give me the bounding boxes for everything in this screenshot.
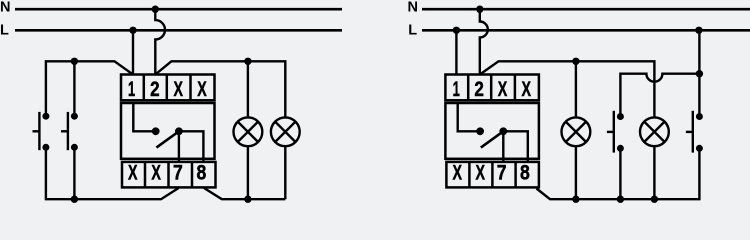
wire N bus (circuit 2) bbox=[422, 8, 750, 11]
relay K1 terminal labels X X 7 8 bbox=[128, 162, 206, 185]
junction on L bus circuit 2 left bbox=[453, 27, 460, 34]
internal wire terminal 1 to contact bbox=[458, 103, 480, 131]
contact fixed point K2 bbox=[476, 127, 484, 135]
contact blade K2 bbox=[481, 131, 504, 147]
junction S2 on bottom bus bbox=[71, 196, 78, 203]
junction pushbutton S2 tap bbox=[71, 58, 78, 65]
wire terminal 8 to bottom bus and pushbutton S4 bbox=[537, 148, 700, 199]
junction on N bus bbox=[152, 6, 159, 13]
wire terminal 8 to bottom bus bbox=[204, 188, 285, 199]
junction lamp E1 tap bbox=[244, 58, 251, 65]
wire L to relay K1 terminal 1 bbox=[132, 30, 134, 74]
wire lamp E4 bottom bbox=[653, 146, 655, 199]
relay K2 terminal labels 1 2 X X bbox=[453, 78, 532, 101]
junction on L bus circuit 2 right bbox=[695, 27, 702, 34]
relay K1 terminal labels 1 2 X X bbox=[128, 78, 207, 101]
wire pushbutton branch to terminal 1 bbox=[46, 61, 133, 116]
svg-text:X: X bbox=[173, 78, 183, 101]
wire S1 bottom and bus to relay K1 terminal 7 bbox=[46, 147, 179, 199]
wire lamp E1 top bbox=[247, 61, 249, 117]
junction lamp E3 on bottom bus bbox=[572, 196, 579, 203]
svg-text:X: X bbox=[522, 78, 532, 101]
lamp E4 bbox=[640, 117, 669, 146]
wire L bus (circuit 1) bbox=[15, 29, 342, 32]
pushbutton S2 bbox=[61, 112, 78, 151]
svg-text:2: 2 bbox=[150, 78, 160, 101]
lamp E2 bbox=[271, 117, 300, 146]
wire terminal 2 to lamps E3 E4 bbox=[480, 61, 655, 117]
svg-text:2: 2 bbox=[474, 78, 484, 101]
relay K1 body bbox=[121, 103, 215, 159]
wire terminal 2 to lamps E1 E2 bbox=[155, 61, 285, 117]
relay K2 bottom terminal row bbox=[446, 162, 539, 188]
wire N bus (circuit 1) bbox=[15, 8, 342, 11]
svg-text:7: 7 bbox=[173, 162, 183, 185]
internal wire contact to terminal 7 K2 bbox=[502, 131, 504, 162]
junction lamp E1 on bottom bus bbox=[244, 196, 251, 203]
contact fixed point bbox=[152, 127, 160, 135]
wire L down to pushbutton node bbox=[698, 30, 700, 73]
pushbutton S3 bbox=[607, 111, 624, 153]
svg-text:L: L bbox=[0, 22, 9, 38]
internal wire terminal 1 to contact bbox=[133, 103, 155, 131]
svg-text:X: X bbox=[197, 78, 207, 101]
svg-text:1: 1 bbox=[453, 78, 460, 101]
svg-text:8: 8 bbox=[197, 162, 207, 185]
wire lamp E3 top bbox=[575, 61, 577, 117]
lamp E1 bbox=[234, 117, 263, 146]
relay K1 top terminal row bbox=[121, 75, 215, 101]
wire lamp E1 bottom bbox=[247, 146, 249, 199]
wire lamp E2 bottom bbox=[284, 146, 286, 199]
wire N to relay K2 terminal 2 with hop over L bbox=[480, 9, 488, 74]
svg-text:N: N bbox=[408, 0, 418, 16]
svg-text:X: X bbox=[498, 78, 508, 101]
internal wire contact to terminal 8 K2 bbox=[503, 131, 528, 162]
relay K2 body bbox=[445, 103, 539, 159]
svg-text:X: X bbox=[452, 162, 462, 185]
svg-text:L: L bbox=[408, 22, 417, 38]
svg-text:X: X bbox=[128, 162, 138, 185]
internal wire contact to terminal 8 bbox=[179, 131, 204, 162]
lamp E3 bbox=[562, 117, 591, 146]
junction lamp E4 on bottom bus bbox=[651, 196, 658, 203]
junction pushbutton S3 on bottom bus bbox=[617, 196, 624, 203]
junction lamp E3 tap bbox=[572, 58, 579, 65]
wire L bus (circuit 2) bbox=[422, 29, 750, 32]
svg-text:N: N bbox=[0, 0, 10, 16]
relay K1 bottom terminal row bbox=[122, 162, 216, 188]
wire pushbutton S4 top bbox=[698, 74, 700, 117]
junction on L bus bbox=[129, 27, 136, 34]
relay K2 top terminal row bbox=[445, 75, 539, 101]
wire pushbutton S3 bottom bbox=[619, 148, 621, 199]
junction pushbutton node bbox=[696, 70, 703, 77]
contact pivot point bbox=[175, 127, 183, 135]
contact blade bbox=[156, 131, 179, 147]
wire L to relay K2 terminal 1 bbox=[455, 30, 457, 74]
junction on N bus circuit 2 bbox=[476, 6, 483, 13]
svg-text:1: 1 bbox=[128, 78, 135, 101]
svg-text:7: 7 bbox=[497, 162, 507, 185]
svg-text:X: X bbox=[151, 162, 161, 185]
wire N to relay K1 terminal 2 with hop over L bbox=[155, 9, 165, 74]
internal wire contact to terminal 7 bbox=[178, 131, 180, 162]
wire node to pushbutton S3 with hop over lamp E4 wire bbox=[620, 74, 699, 117]
pushbutton S4 bbox=[686, 111, 703, 153]
svg-text:X: X bbox=[475, 162, 485, 185]
pushbutton S1 bbox=[33, 112, 50, 151]
relay K2 terminal labels X X 7 8 bbox=[452, 162, 529, 185]
wire pushbutton S2 bottom bbox=[73, 147, 75, 199]
contact pivot point K2 bbox=[499, 127, 507, 135]
wire pushbutton S2 top bbox=[73, 61, 75, 116]
svg-text:8: 8 bbox=[520, 162, 530, 185]
wire lamp E3 bottom bbox=[575, 146, 577, 199]
